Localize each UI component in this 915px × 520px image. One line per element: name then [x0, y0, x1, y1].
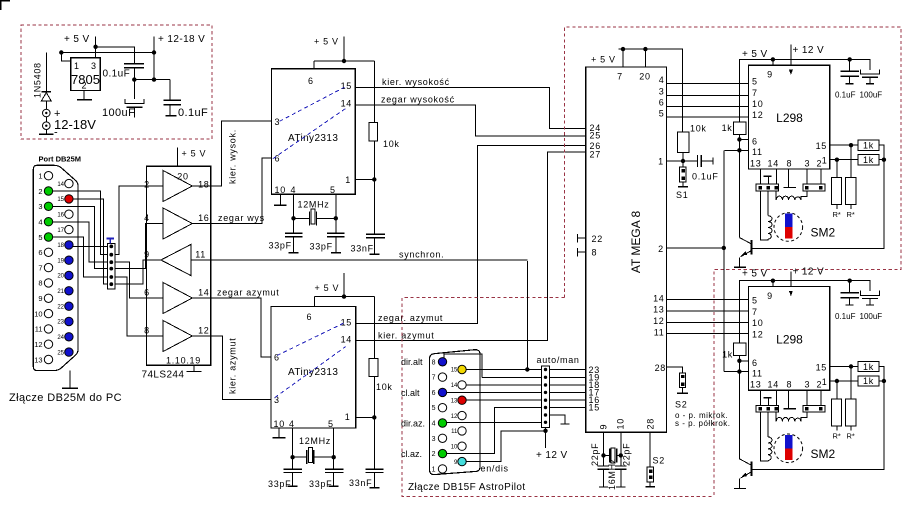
svg-text:S2: S2	[675, 400, 687, 410]
svg-text:100uF: 100uF	[102, 107, 135, 119]
svg-text:1: 1	[74, 61, 80, 71]
svg-text:1k: 1k	[863, 141, 874, 151]
diode 1N5408	[41, 53, 51, 110]
svg-text:20: 20	[57, 274, 64, 280]
svg-text:S2: S2	[653, 456, 665, 466]
svg-text:0.1uF: 0.1uF	[835, 312, 856, 321]
svg-text:7: 7	[617, 72, 623, 82]
svg-text:14: 14	[768, 380, 779, 390]
node rail-154	[152, 50, 156, 54]
svg-text:10: 10	[451, 444, 458, 450]
node pin15 upper	[849, 143, 853, 147]
pin 16 DB25M	[65, 210, 73, 218]
svg-text:14: 14	[57, 182, 64, 188]
terminal - input	[43, 122, 51, 130]
svg-text:10: 10	[616, 418, 626, 429]
svg-text:AT MEGA 8: AT MEGA 8	[629, 211, 643, 274]
pin 15 wire (lower)	[830, 366, 858, 368]
svg-text:13: 13	[750, 380, 761, 390]
svg-text:1: 1	[658, 156, 664, 166]
svg-text:kier. wysok.: kier. wysok.	[228, 129, 238, 184]
buffer A1	[147, 171, 211, 202]
svg-text:14: 14	[653, 293, 664, 303]
svg-text:ATiny2313: ATiny2313	[288, 133, 338, 144]
svg-text:15: 15	[816, 362, 827, 372]
svg-text:1k: 1k	[863, 362, 874, 372]
svg-text:Port DB25M: Port DB25M	[39, 155, 82, 164]
wire pin6 blue to header row4	[447, 391, 542, 393]
capacitor 100uF (lower)	[869, 281, 871, 305]
svg-text:4: 4	[291, 185, 297, 195]
svg-text:-: -	[54, 127, 58, 139]
svg-text:s - p. półkrok.: s - p. półkrok.	[675, 419, 731, 428]
resistor R* b (lower)	[850, 367, 852, 431]
svg-text:6: 6	[752, 358, 758, 368]
node below header	[543, 429, 547, 433]
svg-text:25: 25	[590, 131, 601, 141]
wire +12V into pin4 upper	[790, 45, 792, 66]
capacitor 100uF (upper)	[869, 59, 871, 83]
svg-text:9: 9	[144, 250, 150, 260]
svg-text:12-18V: 12-18V	[54, 117, 96, 132]
svg-text:27: 27	[590, 149, 601, 159]
svg-text:18: 18	[198, 180, 209, 190]
crystal 12MHz (U2)	[307, 450, 314, 464]
capacitor 0.1uF (right)	[164, 100, 181, 116]
wire +5V stub	[95, 37, 97, 47]
svg-text:1.10.19: 1.10.19	[166, 356, 201, 366]
svg-text:12: 12	[451, 414, 458, 420]
wire pin10 xtal	[620, 432, 622, 466]
svg-text:15: 15	[341, 81, 352, 91]
inductor winding horizontal lower	[775, 412, 777, 421]
pin 9 DB15F	[458, 457, 466, 465]
node 154-79.6	[152, 77, 156, 81]
svg-text:5: 5	[659, 108, 665, 118]
wire network to buffer in 2	[115, 186, 146, 255]
svg-text:1: 1	[822, 377, 828, 387]
wire pin8 to header row2	[444, 354, 482, 378]
svg-text:33nF: 33nF	[351, 244, 374, 254]
wire kier. azymut	[356, 152, 586, 341]
dashed box AstroPilot region	[402, 298, 714, 497]
svg-text:L298: L298	[776, 111, 803, 125]
wire header row8 to pin4 green	[447, 421, 542, 423]
svg-text:dir.alt: dir.alt	[401, 357, 423, 367]
svg-text:33pF: 33pF	[310, 242, 333, 252]
svg-text:16MHz: 16MHz	[607, 458, 617, 490]
svg-text:13: 13	[451, 398, 458, 404]
svg-text:3: 3	[38, 202, 42, 211]
pin 21 DB25M	[65, 287, 73, 295]
node xtal right U1	[334, 216, 338, 220]
node reset	[681, 159, 685, 163]
svg-text:2: 2	[144, 180, 150, 190]
svg-text:22: 22	[592, 234, 603, 244]
svg-text:8: 8	[787, 158, 793, 168]
svg-text:5: 5	[432, 405, 436, 412]
wire 1k to pins 6/11 lower	[724, 356, 748, 459]
node pin15 lower	[849, 364, 853, 368]
svg-text:kier. azymut: kier. azymut	[228, 338, 238, 394]
svg-text:R*: R*	[833, 210, 841, 219]
IC 74LS244 box	[147, 166, 211, 365]
svg-text:Złącze DB15F AstroPilot: Złącze DB15F AstroPilot	[408, 482, 526, 493]
svg-text:synchron.: synchron.	[399, 250, 444, 260]
node pin6 lower	[737, 359, 741, 363]
crystal 16MHz	[610, 448, 617, 462]
node xtal right U2	[332, 455, 336, 459]
buffer A3 (reversed)	[147, 245, 211, 276]
svg-text:+ 5 V: + 5 V	[314, 37, 339, 47]
capacitor 33pF a (U1)	[285, 233, 302, 237]
stepper motor SM2 upper	[774, 213, 803, 242]
wire +5V rail upper	[739, 59, 870, 121]
capacitor 22pF a	[598, 466, 610, 469]
svg-text:1k: 1k	[722, 123, 733, 133]
node enable junction	[722, 246, 726, 250]
wire pin13 lower	[759, 390, 761, 405]
pin 14 DB15F	[458, 381, 466, 389]
wire kier. wysokosc	[355, 88, 585, 129]
ground emitter lower	[734, 488, 746, 490]
svg-text:14: 14	[451, 383, 458, 389]
svg-text:0.1uF: 0.1uF	[692, 172, 719, 182]
pin 6 DB15F	[438, 388, 446, 396]
wire +5V to cap	[96, 47, 135, 64]
capacitor 0.1uF (reset)	[698, 155, 714, 167]
wire 1k to pins 6/11 upper	[724, 134, 748, 237]
wire pin5 to network	[53, 237, 108, 277]
svg-text:11: 11	[195, 250, 206, 260]
wire +12V stem	[545, 431, 547, 448]
svg-text:4: 4	[144, 213, 150, 223]
svg-text:6: 6	[275, 154, 281, 164]
svg-text:18: 18	[57, 243, 64, 249]
node pin7	[621, 47, 625, 51]
svg-text:9: 9	[767, 70, 773, 80]
wire pin2 to network	[53, 191, 108, 255]
arrow pin4 lower	[789, 291, 793, 297]
svg-text:S1: S1	[676, 190, 688, 200]
node pin1 lower	[835, 379, 839, 383]
node xtal left U2	[290, 455, 294, 459]
wire crystal row U1	[294, 217, 336, 219]
inductor winding vertical upper	[767, 191, 769, 216]
svg-text:6: 6	[752, 137, 758, 147]
svg-text:23: 23	[57, 320, 64, 326]
pin 12 DB15F	[458, 411, 466, 419]
pin 6 DB25M	[44, 248, 52, 256]
wire xtal row	[604, 454, 621, 456]
svg-text:4: 4	[38, 218, 42, 227]
svg-text:24: 24	[57, 335, 64, 341]
wire terminal link	[45, 117, 47, 122]
IC ATMEGA8	[586, 67, 667, 432]
svg-text:7: 7	[432, 375, 436, 382]
wire +5V U1	[314, 37, 374, 123]
dashed link 6-15 U2	[277, 323, 344, 355]
wire 1k commons to base lower	[752, 367, 884, 470]
node rail pin9 lower	[771, 279, 775, 283]
pin 1 wire (lower)	[830, 380, 858, 382]
node pin6 upper	[737, 137, 741, 141]
wire 10k to pin1	[355, 141, 374, 234]
capacitor 33nF (U1)	[366, 234, 385, 238]
svg-text:5: 5	[38, 233, 42, 242]
node pin1 upper	[835, 158, 839, 162]
pin 15 DB25M	[65, 195, 73, 203]
pin 10 DB25M	[44, 309, 52, 317]
svg-text:33pF: 33pF	[309, 479, 332, 489]
svg-text:R*: R*	[847, 210, 855, 219]
svg-text:2: 2	[817, 380, 823, 390]
svg-text:10: 10	[34, 309, 42, 318]
wire pin14 to header row3	[466, 384, 541, 386]
wire reset node	[667, 153, 698, 167]
resistor network RN1	[108, 244, 116, 289]
svg-text:15: 15	[589, 403, 600, 413]
pin 7 DB15F	[438, 373, 446, 381]
regulator 7805	[71, 58, 100, 91]
wire pin28 bottom to S2	[649, 432, 651, 467]
capacitor 0.1uF (near 7805)	[124, 64, 144, 80]
svg-text:100uF: 100uF	[860, 312, 883, 321]
svg-text:5: 5	[328, 419, 334, 429]
svg-text:11: 11	[752, 147, 763, 157]
svg-text:21: 21	[57, 289, 64, 295]
wire 1k commons to base upper	[752, 145, 884, 248]
IC L298 lower	[749, 287, 830, 391]
pin 23 DB25M	[65, 317, 73, 325]
svg-text:kier. wysokość: kier. wysokość	[382, 77, 450, 87]
resistor R* a (lower)	[836, 381, 838, 430]
wire pin4 U1 to crystal	[293, 194, 295, 233]
stub center tap lower	[767, 398, 769, 406]
svg-text:dir.az.: dir.az.	[401, 419, 425, 429]
wire pin2 lower	[820, 390, 822, 405]
svg-text:100uF: 100uF	[860, 91, 883, 100]
svg-text:3: 3	[432, 436, 436, 443]
pin 11 DB25M	[44, 325, 52, 333]
pin 14 DB25M	[65, 179, 73, 187]
ground input	[45, 130, 47, 134]
DB25 ground wire	[69, 371, 71, 388]
svg-text:zegar wys: zegar wys	[218, 213, 265, 223]
wire pin3 upper	[806, 169, 808, 184]
wire header row2 feed	[482, 376, 542, 378]
wire 7805 gnd	[83, 91, 85, 100]
capacitor 0.1uF (upper)	[849, 59, 851, 83]
svg-text:16: 16	[57, 212, 64, 218]
connector DB15F outline	[430, 350, 481, 475]
resistor 1k pull (upper)	[734, 122, 746, 135]
pin 19 DB25M	[65, 256, 73, 264]
ground 74LS244	[193, 365, 195, 371]
wire network to buffer in 6	[115, 262, 146, 298]
svg-text:2: 2	[82, 81, 88, 91]
inductor winding vertical lower	[767, 412, 769, 437]
svg-text:33pF: 33pF	[268, 479, 291, 489]
wire 10k2 to pin1	[356, 376, 375, 469]
IC L298 upper	[749, 65, 830, 169]
svg-text:11: 11	[451, 429, 458, 435]
wire pin5 U2	[333, 428, 335, 469]
node pin1 U1	[372, 177, 376, 181]
pin 22 stub	[578, 234, 586, 243]
pin 24 DB25M	[65, 333, 73, 341]
wire pin4 to network	[53, 222, 108, 262]
wire pin3 lower	[806, 390, 808, 405]
svg-text:0.1uF: 0.1uF	[835, 91, 856, 100]
dashed box ATMEGA region	[565, 27, 901, 496]
svg-text:10k: 10k	[383, 139, 400, 149]
wire buffer out12 to ATiny2 pin3	[211, 336, 271, 400]
node 1k common lower	[882, 379, 886, 383]
svg-text:en/dis: en/dis	[481, 464, 509, 474]
svg-text:28: 28	[655, 363, 666, 373]
svg-text:3: 3	[91, 61, 97, 71]
svg-text:2: 2	[658, 244, 664, 254]
node +5V U1	[342, 59, 346, 63]
resistor 1k a (lower)	[858, 362, 879, 372]
svg-text:14: 14	[768, 158, 779, 168]
svg-text:5: 5	[752, 296, 758, 306]
svg-text:9: 9	[38, 294, 42, 303]
buffer A4	[147, 283, 211, 314]
wire +5V into 244	[177, 148, 179, 167]
svg-text:+ 5 V: + 5 V	[182, 149, 207, 159]
capacitor 0.1uF (lower)	[849, 281, 851, 305]
ground pin10 U2	[278, 428, 280, 437]
pin 3 DB25M	[44, 202, 52, 210]
wire network to buffer in 4	[115, 224, 146, 269]
wire +12V into pin4 lower	[790, 271, 792, 286]
wires ATMEGA to L298 lower	[667, 300, 750, 334]
svg-text:22pF: 22pF	[590, 443, 600, 466]
svg-text:6: 6	[432, 390, 436, 397]
winding connector A upper	[756, 184, 779, 191]
svg-text:kier. azymut: kier. azymut	[378, 330, 434, 340]
wire buffer out18 to ATiny1 pin3	[211, 121, 272, 186]
svg-text:22pF: 22pF	[622, 443, 632, 466]
svg-text:3: 3	[805, 158, 811, 168]
node xtal b	[619, 453, 623, 457]
resistor 10k (reset)	[678, 132, 689, 153]
dashed link 6-14 U1	[273, 108, 346, 158]
svg-text:17: 17	[57, 228, 64, 234]
wire +5V rail ATMEGA	[619, 49, 683, 132]
capacitor 22pF b	[615, 466, 627, 469]
svg-text:+ 12-18 V: + 12-18 V	[158, 34, 205, 45]
wire pin2 enable	[667, 247, 724, 249]
node +5V U2	[342, 294, 346, 298]
wire zegar wysokosc	[355, 105, 585, 136]
svg-text:1k: 1k	[863, 155, 874, 165]
svg-text:zegar wysokość: zegar wysokość	[381, 95, 455, 105]
wire pin9 stub lower	[772, 281, 774, 287]
wire enable line pin2 to both stages	[724, 150, 740, 371]
wire pin15 yellow to header row1	[466, 369, 541, 371]
svg-text:74LS244: 74LS244	[142, 370, 185, 381]
IC ATiny2313 U1	[271, 69, 355, 194]
node +5V junction	[93, 45, 97, 49]
svg-text:+ 5 V: + 5 V	[742, 49, 768, 60]
svg-text:auto/man: auto/man	[537, 355, 580, 365]
svg-text:5: 5	[330, 185, 336, 195]
network blue mark	[107, 239, 115, 244]
svg-text:25: 25	[57, 350, 64, 356]
svg-text:13: 13	[750, 158, 761, 168]
pin 8 DB25M	[44, 279, 52, 287]
wire header row7 to ground	[550, 415, 566, 424]
svg-text:11: 11	[654, 327, 665, 337]
capacitor 33nF (U2)	[366, 469, 384, 472]
svg-text:Złącze DB25M do PC: Złącze DB25M do PC	[9, 392, 122, 404]
ground 7805	[77, 99, 92, 101]
winding connector B upper	[803, 184, 825, 191]
pin 17 DB25M	[65, 225, 73, 233]
svg-text:2: 2	[432, 451, 436, 458]
IC ATiny2313 U2	[271, 306, 356, 428]
winding connector B lower	[803, 405, 825, 412]
svg-text:1: 1	[38, 172, 42, 181]
svg-text:15: 15	[451, 368, 458, 374]
svg-text:8: 8	[144, 326, 150, 336]
wire 79.6 rail	[134, 80, 170, 100]
svg-text:9: 9	[767, 291, 773, 301]
wire crystal row U2	[293, 456, 334, 458]
wire pin13 upper	[759, 169, 761, 184]
svg-text:33pF: 33pF	[269, 241, 292, 251]
wire pin5 U1 to crystal	[335, 194, 337, 233]
svg-text:2: 2	[817, 158, 823, 168]
pin 10 DB15F	[458, 442, 466, 450]
svg-text:10: 10	[275, 185, 286, 195]
pin 4 DB15F	[438, 419, 446, 427]
node xtal a	[601, 453, 605, 457]
resistor 10k (U2)	[369, 359, 378, 377]
pin 1 wire (upper)	[830, 159, 858, 161]
wire pin4 U2	[292, 428, 294, 469]
wire pin9 stub upper	[772, 59, 774, 65]
svg-text:14: 14	[198, 288, 209, 298]
svg-text:1: 1	[822, 156, 828, 166]
svg-text:28: 28	[646, 418, 656, 429]
wire pin13 red to header row5	[466, 399, 541, 401]
ground pin10 U1	[279, 194, 281, 205]
svg-text:12MHz: 12MHz	[298, 200, 330, 210]
svg-text:7: 7	[38, 263, 42, 272]
svg-text:1: 1	[432, 466, 436, 473]
capacitor 33pF a (U2)	[284, 469, 303, 472]
svg-text:zegar azymut: zegar azymut	[217, 288, 279, 298]
pin 4 DB25M	[44, 218, 52, 226]
svg-text:3: 3	[659, 87, 665, 97]
pin 5 DB15F	[438, 404, 446, 412]
pin 22 DB25M	[65, 302, 73, 310]
svg-text:8: 8	[38, 279, 42, 288]
pin 20 DB25M	[65, 271, 73, 279]
resistor 1k b (lower)	[858, 376, 879, 386]
resistor 10k (U1)	[369, 123, 378, 141]
svg-text:10k: 10k	[376, 382, 393, 392]
wire pin18 to network	[73, 245, 107, 247]
ground emitter upper	[734, 266, 746, 268]
node rail-diode	[59, 50, 63, 54]
pin 9 DB25M	[44, 294, 52, 302]
svg-text:L298: L298	[776, 332, 803, 346]
